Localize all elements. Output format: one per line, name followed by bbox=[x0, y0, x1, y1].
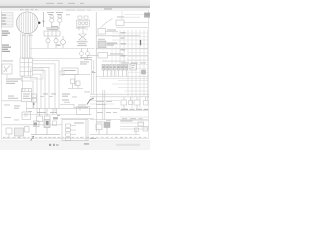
arrow mark bbox=[31, 136, 34, 141]
label top right bbox=[104, 9, 112, 10]
sub box B4 bbox=[22, 112, 31, 120]
horn icon bbox=[2, 64, 12, 74]
connector pin hatch bbox=[18, 11, 36, 35]
labels mid right cluster rows bbox=[96, 100, 104, 103]
switch cluster S1 crossed wires bbox=[79, 31, 87, 40]
wire into B3 bbox=[2, 100, 22, 102]
faint links bottom right bbox=[90, 101, 149, 124]
text block mid cluster bbox=[80, 56, 92, 59]
labels above component row bbox=[102, 60, 126, 63]
wire from horn bbox=[7, 74, 23, 92]
junction dot J2 bbox=[92, 71, 94, 73]
lamp L0b bbox=[58, 16, 62, 26]
toolbar text bbox=[46, 3, 84, 4]
bottom cluster under fan bus bbox=[31, 120, 60, 135]
junction box J1 bbox=[88, 53, 148, 59]
label above connector bbox=[20, 8, 24, 11]
component row pips bbox=[103, 67, 127, 68]
right bus grid horizontals bbox=[112, 40, 148, 60]
bottom mid-right cluster bbox=[90, 122, 120, 134]
main bus wire A bbox=[30, 47, 95, 49]
label above switch cluster bbox=[76, 27, 86, 30]
viewer bottom strip bbox=[0, 141, 150, 151]
vertical pair wires bbox=[92, 60, 94, 95]
right bottom component row bbox=[121, 97, 148, 109]
double bus right bbox=[90, 90, 149, 120]
horizontal bus row2 bbox=[22, 114, 92, 116]
wire below B3 bbox=[26, 102, 28, 113]
labels right mid row bbox=[121, 62, 129, 65]
label row above S0 bbox=[66, 9, 75, 12]
connector pin dot bbox=[38, 22, 40, 24]
stub box right of fan bbox=[60, 71, 64, 75]
module box M1b bbox=[130, 64, 137, 71]
viewer top toolbar bbox=[0, 0, 150, 7]
lamp L0a bbox=[50, 16, 54, 26]
labels right grid edge bbox=[121, 31, 126, 34]
horizontal bus row1 bbox=[27, 107, 121, 109]
label in relay box K3 bbox=[74, 123, 84, 124]
label control box bbox=[64, 70, 76, 71]
tiny text marks (labels) bbox=[2, 9, 148, 140]
label left module box bbox=[23, 93, 30, 96]
label under S1 bbox=[77, 41, 88, 46]
feeder vertical N1 bbox=[95, 12, 97, 92]
labels right grid bbox=[98, 38, 105, 41]
bottom center relay box K3 bbox=[62, 120, 88, 141]
label small box under lamps bbox=[51, 25, 58, 28]
label below connector bbox=[22, 34, 26, 37]
fuse F1 bbox=[96, 29, 140, 36]
footer page text bbox=[49, 143, 140, 146]
bus wire B bbox=[22, 58, 88, 60]
junction dot J3 bbox=[33, 103, 35, 105]
drop bus terminal row bbox=[32, 94, 37, 108]
dark tick D1 bbox=[140, 40, 142, 45]
bottom-left terminal boxes bbox=[37, 108, 57, 121]
dark mark k3 area bbox=[46, 121, 49, 125]
bottom right links bbox=[90, 120, 149, 135]
probe wire with arrow bbox=[42, 12, 44, 27]
pencil check mark bbox=[87, 98, 94, 105]
frame bottom zone ticks bbox=[3, 136, 6, 139]
corner box shading bbox=[144, 14, 150, 15]
relay K2 (shaded) bbox=[96, 41, 148, 49]
label left legend rows bbox=[2, 31, 9, 32]
fan-out wires to drop bus bbox=[22, 61, 60, 115]
label bus text right bbox=[121, 109, 128, 110]
dark box D2 bbox=[142, 70, 146, 74]
module labels box group mid-bottom bbox=[60, 105, 90, 115]
label above control box bbox=[80, 61, 89, 64]
component row mid-right bbox=[96, 65, 148, 77]
legend table top-left bbox=[2, 13, 14, 28]
connector circle X1 bbox=[16, 12, 38, 34]
labels above drop bus cluster bbox=[43, 93, 48, 96]
labels bottom right bbox=[121, 121, 133, 122]
dark mark cluster bottom left bbox=[34, 123, 37, 126]
label text block under horn bbox=[6, 79, 21, 80]
mesh horizontals right bbox=[100, 79, 148, 92]
mesh grid right column bbox=[112, 33, 148, 76]
label frame in fan area bbox=[31, 69, 44, 79]
wire stub to corner box bbox=[122, 11, 144, 20]
label left of module bbox=[8, 95, 14, 98]
left module box B3 bbox=[22, 89, 32, 102]
long wire bottom mid bbox=[60, 118, 94, 120]
terminal strip TB1 bbox=[44, 31, 60, 36]
page background bbox=[0, 0, 150, 150]
switch cluster S0 upper bbox=[77, 16, 90, 31]
sensor cluster B2 bbox=[68, 79, 83, 89]
main schematic strokes bbox=[2, 11, 151, 141]
legend text column bbox=[2, 15, 6, 25]
label horn bbox=[2, 60, 13, 63]
misc specks right band bbox=[97, 111, 103, 114]
small box under lamps bbox=[52, 27, 58, 30]
bottom left component row bbox=[2, 125, 62, 139]
wire bus under connector bbox=[21, 33, 31, 58]
lamp L2 bbox=[54, 36, 58, 48]
schematic frame bbox=[1, 10, 148, 139]
feeder down right mid bbox=[96, 92, 98, 132]
speck near bus bbox=[57, 45, 61, 46]
labels mid bottom bbox=[62, 94, 70, 95]
label above terminal strip bbox=[46, 27, 60, 30]
top right leader wire bbox=[101, 19, 149, 29]
label above lamps bbox=[47, 11, 54, 14]
toolbar bottom edge line bbox=[0, 7, 150, 8]
control box B1 bbox=[62, 68, 90, 86]
misc specks center band bbox=[64, 101, 70, 104]
labels bottom row clusters bbox=[37, 111, 46, 114]
dark corner box top right bbox=[144, 13, 150, 18]
bottom right bus labels bbox=[120, 111, 149, 118]
lamp L1 bbox=[46, 36, 50, 48]
relay K1 cluster under bus bbox=[80, 48, 90, 58]
right bus grid verticals bbox=[120, 30, 148, 108]
misc specks left bottom band bbox=[4, 104, 10, 107]
gauge G1 bbox=[61, 36, 66, 48]
connector block X2 grid box bbox=[20, 58, 33, 76]
